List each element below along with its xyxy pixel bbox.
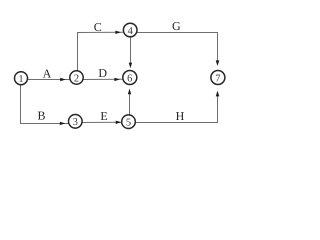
svg-text:2: 2	[74, 73, 79, 84]
node 1	[15, 72, 28, 85]
svg-text:B: B	[37, 108, 45, 122]
wire dummy (4→6)	[129, 37, 132, 68]
svg-text:D: D	[98, 66, 107, 80]
node 4	[123, 23, 137, 37]
node 2	[70, 71, 83, 85]
svg-text:E: E	[100, 109, 107, 123]
wire H (5→7)	[135, 91, 219, 123]
svg-text:3: 3	[73, 117, 78, 128]
svg-text:5: 5	[126, 118, 131, 129]
node 7	[211, 71, 225, 85]
svg-text:H: H	[176, 109, 185, 123]
wire dummy (5→6)	[128, 89, 131, 115]
svg-text:6: 6	[127, 73, 132, 84]
node 5	[122, 115, 136, 129]
node 3	[69, 115, 83, 129]
wire A (1→2)	[27, 78, 70, 81]
wire E (3→5)	[82, 121, 121, 124]
svg-text:4: 4	[128, 26, 134, 37]
svg-text:G: G	[172, 19, 181, 33]
wire D (2→6)	[83, 78, 123, 81]
svg-text:C: C	[94, 20, 102, 34]
svg-text:1: 1	[18, 74, 23, 85]
wire B (1→3)	[21, 85, 69, 125]
wire G (4→7)	[137, 33, 219, 67]
node 6	[123, 71, 137, 85]
svg-text:A: A	[43, 66, 52, 80]
svg-text:7: 7	[215, 73, 220, 84]
wire C (2→4)	[78, 31, 124, 71]
